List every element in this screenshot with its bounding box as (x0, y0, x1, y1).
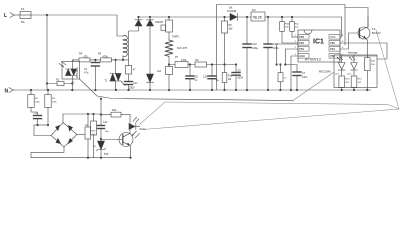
wire VCC riser (340, 17, 342, 37)
svg-text:PB4: PB4 (299, 47, 305, 51)
wire DC rail y17 (139, 16, 342, 18)
panel parallelogram (165, 102, 399, 109)
svg-text:C14: C14 (33, 113, 38, 115)
svg-text:5A: 5A (21, 20, 25, 24)
wire diagonal W6 (376, 30, 399, 109)
svg-text:F1: F1 (21, 7, 25, 11)
svg-text:LD1: LD1 (335, 73, 340, 75)
svg-text:630V: 630V (238, 77, 244, 80)
wire bridge top riser (62, 114, 64, 123)
node triac top (114, 59, 116, 61)
svg-text:220k: 220k (35, 101, 41, 103)
wire GND riser (291, 56, 298, 90)
capacitor C9 (232, 63, 243, 90)
resistor R16 (351, 76, 362, 90)
wire bottom rail (31, 157, 131, 159)
svg-text:100n: 100n (273, 46, 279, 50)
wire N rail (14, 89, 371, 91)
resistor R11 (77, 114, 96, 158)
wire L vertical drop (46, 15, 48, 90)
resistor R1 opto series (46, 78, 74, 85)
transistor Q2 T2 BC547 (358, 17, 381, 55)
node coil bottom (122, 59, 124, 61)
op-amp U2 IC1 ATTINY13 (295, 30, 345, 62)
capacitor C14 (33, 113, 42, 125)
svg-text:Anzeige: Anzeige (348, 51, 358, 55)
resistor R6 (190, 59, 236, 67)
wire PB3 riser (277, 44, 298, 65)
wire PB0 right (340, 43, 387, 59)
svg-text:PB5: PB5 (299, 35, 305, 39)
resistor R14 (365, 55, 376, 90)
capacitor C1 (84, 60, 99, 90)
svg-text:3k3: 3k3 (229, 27, 234, 30)
resistor R12 (101, 109, 130, 117)
svg-text:LD2: LD2 (347, 73, 352, 75)
wire to bridge left (34, 125, 51, 136)
svg-text:GND: GND (299, 54, 305, 58)
svg-text:250V: 250V (129, 87, 135, 90)
wire T2 collector top (345, 8, 368, 28)
svg-text:10n: 10n (133, 82, 138, 85)
svg-text:R13: R13 (92, 131, 97, 133)
svg-text:1k: 1k (284, 78, 287, 80)
wire plus rail y114 (63, 113, 101, 115)
voltage regulator 78L05 (251, 9, 265, 21)
svg-text:10k: 10k (371, 64, 375, 66)
resistor R15 (339, 76, 350, 90)
svg-text:470k: 470k (181, 59, 187, 62)
svg-text:100µ: 100µ (252, 46, 258, 50)
diode D2 (147, 17, 165, 74)
capacitor C snubber (125, 82, 138, 91)
svg-text:C10: C10 (203, 76, 208, 79)
resistor R2 pullup (280, 17, 298, 43)
lamp LA1 (157, 65, 173, 91)
resistor R9 (85, 113, 97, 158)
svg-text:TMP1: TMP1 (172, 35, 179, 39)
wire opto pins (71, 60, 73, 90)
node base tap (100, 138, 102, 140)
wire bridge bottom (31, 147, 64, 158)
svg-text:1N4007: 1N4007 (155, 21, 164, 24)
wire W3 diagonal to LED panel (293, 72, 334, 101)
capacitor C11 (98, 121, 110, 141)
svg-text:N: N (5, 89, 9, 95)
svg-text:R5: R5 (98, 53, 102, 56)
enclosure box (217, 5, 346, 91)
svg-text:47: 47 (133, 69, 136, 72)
svg-text:R10: R10 (285, 24, 290, 26)
bridge rectifier B1 (51, 123, 77, 148)
svg-text:78L05: 78L05 (252, 16, 262, 20)
resistor R8 (222, 17, 234, 66)
node R4 C1 junction (94, 59, 96, 61)
diode D6 series (227, 6, 237, 21)
diode D1 (129, 17, 143, 60)
svg-text:IC1: IC1 (313, 39, 324, 46)
svg-text:C7: C7 (302, 72, 306, 75)
LED panel box (334, 55, 377, 88)
svg-text:1n: 1n (195, 79, 198, 82)
svg-text:R7: R7 (175, 56, 179, 59)
inductor L1 (123, 35, 127, 60)
svg-text:MOC3043: MOC3043 (319, 70, 331, 74)
svg-text:C11: C11 (103, 121, 108, 124)
svg-text:VCC: VCC (330, 35, 336, 39)
fuse F1 (20, 7, 31, 24)
svg-text:1N4148: 1N4148 (227, 9, 237, 13)
svg-text:T1: T1 (105, 80, 108, 83)
svg-text:C1: C1 (84, 67, 88, 71)
resistor R7 (169, 56, 190, 68)
capacitor C8 (186, 65, 199, 91)
resistor R snubber 47 (125, 60, 136, 82)
wire PB5 pin (292, 36, 298, 38)
wire PB4 riser (285, 49, 298, 65)
svg-text:PB0: PB0 (330, 41, 336, 45)
node fuse junction (46, 14, 48, 16)
svg-text:C12: C12 (252, 42, 257, 46)
svg-text:2k2: 2k2 (358, 82, 362, 84)
svg-text:S1V 275: S1V 275 (177, 46, 188, 50)
svg-text:100n: 100n (302, 76, 308, 79)
resistor R4 (72, 53, 95, 62)
wire PB1 to base (340, 33, 358, 49)
wire beam panel to phototransistor (143, 109, 399, 130)
resistor R10 (222, 65, 233, 91)
svg-text:5V6: 5V6 (104, 153, 109, 156)
capacitor C13 (264, 17, 279, 90)
diode zener ZD1 (93, 141, 109, 158)
wire PB2 right (340, 55, 377, 57)
capacitor C12 (243, 17, 258, 90)
svg-text:R3: R3 (52, 98, 56, 100)
wire low rail W1 (80, 79, 294, 101)
transistor Q3 photo T3 (101, 127, 140, 158)
varistor column fusible resistor (161, 17, 179, 40)
diode D3 (147, 74, 154, 90)
svg-text:10k: 10k (285, 27, 289, 29)
svg-text:D6: D6 (229, 6, 233, 10)
node supply column (100, 99, 102, 126)
resistor R3 pullup (290, 17, 300, 37)
node varistor bottom (168, 63, 170, 65)
svg-text:R11: R11 (295, 24, 300, 26)
svg-text:R12: R12 (112, 109, 117, 112)
node rail junctions (30, 89, 369, 91)
op-amp U1 opto triac IC3 (59, 60, 80, 84)
wire R12 down (129, 115, 131, 127)
svg-text:10k: 10k (295, 27, 299, 29)
svg-text:R16: R16 (358, 79, 363, 81)
wire dropper join (34, 124, 48, 126)
node rail dots (137, 16, 293, 18)
svg-text:R14: R14 (371, 61, 376, 63)
svg-text:56µ: 56µ (105, 131, 109, 133)
svg-text:PB3: PB3 (299, 41, 305, 45)
capacitor C10 (203, 63, 220, 90)
transistor Q1 triac TR1 (105, 60, 125, 90)
LED D5 PGA1 (129, 117, 147, 132)
resistor R3 dropper (45, 90, 58, 125)
svg-text:220k: 220k (52, 101, 58, 103)
resistor R11b (278, 65, 288, 91)
wire L to transformer corner (31, 15, 123, 36)
node L terminal (4, 13, 20, 20)
node N terminal (5, 88, 15, 95)
svg-text:R1: R1 (56, 78, 60, 81)
svg-text:L: L (4, 13, 7, 19)
svg-text:2k2: 2k2 (345, 82, 349, 84)
svg-text:LA1: LA1 (157, 70, 162, 73)
svg-text:R4: R4 (79, 53, 83, 56)
svg-text:R15: R15 (345, 79, 350, 81)
varistor SIV zigzag (165, 40, 188, 65)
svg-text:47n: 47n (84, 71, 89, 75)
LED D7 (335, 55, 345, 76)
svg-text:470k: 470k (103, 55, 109, 58)
resistor R2 dropper (28, 90, 41, 116)
node C8 tap (189, 63, 191, 65)
svg-text:ZD: ZD (93, 146, 96, 148)
svg-text:PB1: PB1 (330, 47, 336, 51)
svg-text:470: 470 (84, 55, 89, 58)
capacitor C7 (285, 65, 308, 91)
svg-text:MOC3041: MOC3041 (76, 66, 79, 78)
svg-text:IC2: IC2 (252, 9, 256, 12)
resistor R5 (95, 53, 128, 62)
wire beam LED to panel (140, 102, 166, 125)
svg-text:1M: 1M (228, 78, 231, 81)
LED D8 (347, 55, 357, 76)
svg-text:1µ: 1µ (216, 79, 219, 82)
svg-text:4: 4 (73, 82, 75, 84)
svg-text:R2: R2 (35, 98, 39, 100)
svg-text:8: 8 (342, 35, 344, 37)
